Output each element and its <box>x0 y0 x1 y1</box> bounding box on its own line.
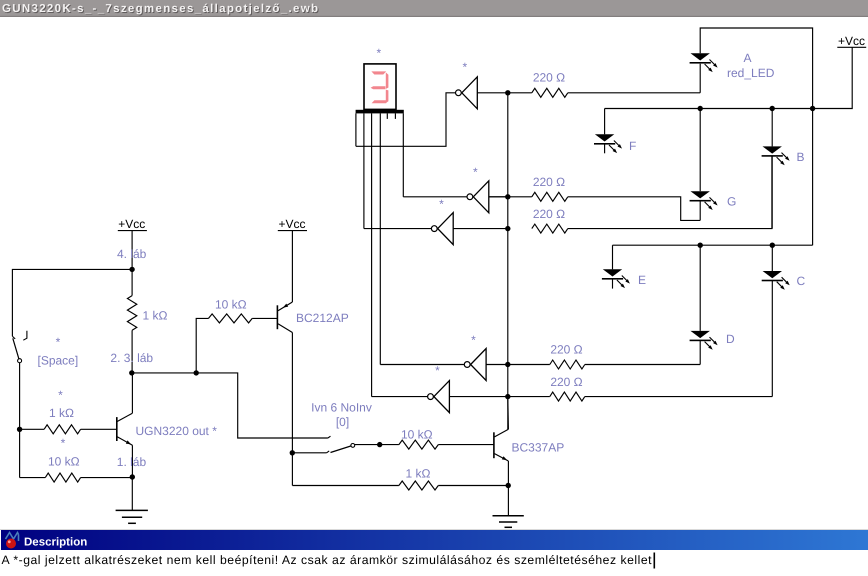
resistor R7 10k <box>20 473 133 482</box>
7-seg display pin header bar <box>356 110 404 114</box>
node base feed <box>194 370 199 375</box>
node bus-row4 <box>505 362 510 367</box>
node 4. lab <box>129 267 134 272</box>
svg-text:E: E <box>638 273 646 287</box>
label resistor R9 <box>215 298 247 312</box>
wire node to switch J1 <box>12 269 132 336</box>
wire pin4 to inverter U5 <box>380 364 464 366</box>
label [Space] <box>38 354 79 368</box>
svg-text:*: * <box>56 335 61 349</box>
wire inverter U2 output <box>477 92 508 94</box>
node R6-R7 left <box>17 427 22 432</box>
node 1. lab <box>130 474 135 479</box>
node +Vcc feed <box>810 106 815 111</box>
label LED D <box>726 332 735 346</box>
label resistor R5 <box>550 375 582 389</box>
star above inverter U3 <box>473 165 478 179</box>
wire pin3 to inverter U6 <box>372 396 428 398</box>
inverter U6 <box>428 381 450 413</box>
star above inverter U6 <box>435 364 440 378</box>
label 2. 3. lab <box>110 351 153 365</box>
LED E <box>602 245 630 288</box>
svg-text:1 kΩ: 1 kΩ <box>143 309 168 323</box>
svg-text:+Vcc: +Vcc <box>838 34 865 48</box>
node bus-row2 <box>505 194 510 199</box>
svg-text:*: * <box>435 364 440 378</box>
7-seg segment c (lower right) <box>386 90 389 104</box>
svg-text:10 kΩ: 10 kΩ <box>401 428 433 442</box>
text cursor <box>654 553 656 569</box>
LED D <box>690 245 718 364</box>
wire node up to R9 <box>196 318 208 373</box>
label resistor R1 <box>533 71 565 85</box>
label resistor R10 <box>401 428 433 442</box>
node LED B anode <box>770 106 775 111</box>
node switch J2 pole <box>290 450 295 455</box>
power +Vcc right <box>813 34 867 109</box>
label LED B <box>797 150 805 164</box>
label resistor R3 <box>533 207 565 221</box>
7-seg pin 1 <box>355 113 357 146</box>
svg-text:B: B <box>797 150 805 164</box>
svg-text:UGN3220 out *: UGN3220 out * <box>136 424 218 438</box>
wire R3 to LED B <box>568 156 772 229</box>
node bus-row1 <box>505 90 510 95</box>
label LED C <box>797 274 806 288</box>
description body background <box>0 550 868 576</box>
svg-text:1 kΩ: 1 kΩ <box>49 406 74 420</box>
star above R7 <box>61 436 66 450</box>
label resistor R2 <box>533 175 565 189</box>
wire anode bus lower <box>613 244 813 246</box>
power +Vcc middle <box>278 217 307 302</box>
LED A red_LED <box>690 53 718 93</box>
svg-text:220 Ω: 220 Ω <box>550 375 582 389</box>
svg-text:D: D <box>726 332 735 346</box>
label resistor R6 <box>49 406 74 420</box>
7-seg pin 2 <box>363 113 365 228</box>
svg-text:*: * <box>58 388 63 402</box>
wire inverter U4 output <box>453 228 508 230</box>
label UGN3220 out <box>136 424 218 438</box>
switch J1 [Space] <box>12 331 27 363</box>
svg-text:GUN3220K-s_-_7szegmenses_állap: GUN3220K-s_-_7szegmenses_állapotjelző_.e… <box>2 3 318 15</box>
svg-text:+Vcc: +Vcc <box>278 217 305 231</box>
svg-text:1 kΩ: 1 kΩ <box>406 467 431 481</box>
node bus-row5 <box>505 394 510 399</box>
7-seg pin 5 <box>402 113 404 196</box>
resistor R8 1k vertical <box>127 269 136 373</box>
label LED F <box>629 139 636 153</box>
label BC212AP <box>296 311 349 325</box>
svg-text:10 kΩ: 10 kΩ <box>48 455 80 469</box>
description title bar <box>1 530 868 550</box>
LED C <box>762 245 790 396</box>
transistor Q3 BC337AP <box>494 397 509 516</box>
LED B <box>762 109 790 229</box>
inverter U2 <box>456 77 478 109</box>
wire inverter U6 output <box>449 396 507 398</box>
label resistor R7 <box>48 455 80 469</box>
wire switch to resistors <box>19 363 21 478</box>
description body text <box>2 553 653 567</box>
resistor R5 220 ohm <box>508 392 585 401</box>
svg-text:10 kΩ: 10 kΩ <box>215 298 247 312</box>
star above inverter U5 <box>471 333 476 347</box>
svg-text:BC212AP: BC212AP <box>296 311 349 325</box>
label resistor R8 <box>143 309 168 323</box>
description title text <box>24 537 87 549</box>
wire pin1 to inverter U2 <box>356 93 456 147</box>
inverter U4 <box>431 213 453 245</box>
label resistor R4 <box>550 343 582 357</box>
resistor R4 220 ohm <box>508 360 585 369</box>
LED G <box>690 109 718 221</box>
label LED G <box>727 195 736 209</box>
svg-text:*: * <box>61 436 66 450</box>
resistor R10 10k <box>380 440 494 449</box>
inverter U5 <box>464 349 486 381</box>
node 2.3 lab <box>129 370 134 375</box>
label BC337AP <box>512 441 565 455</box>
window title bar <box>0 0 868 17</box>
resistor R11 1k <box>292 481 508 490</box>
resistor R3 220 ohm <box>532 224 568 233</box>
star above inverter U2 <box>462 60 467 74</box>
wire pin5 to inverter U3 <box>403 196 467 198</box>
label LED E <box>638 273 646 287</box>
7-seg pin 4 <box>379 113 381 364</box>
wire bus link right <box>812 109 814 246</box>
star above inverter U4 <box>439 197 444 211</box>
svg-text:G: G <box>727 195 736 209</box>
LED F <box>594 109 622 154</box>
label red_LED <box>727 66 775 80</box>
svg-text:*: * <box>462 60 467 74</box>
star above [Space] <box>56 335 61 349</box>
svg-text:220 Ω: 220 Ω <box>533 207 565 221</box>
svg-text:+Vcc: +Vcc <box>118 217 145 231</box>
7-segment display U1 body <box>364 64 396 110</box>
ground GND2 <box>493 516 524 528</box>
power +Vcc left <box>118 217 147 269</box>
label [0] <box>336 415 349 429</box>
node LED C anode <box>770 243 775 248</box>
wire node to switch J2 upper <box>196 373 328 438</box>
svg-text:Description: Description <box>24 537 87 549</box>
svg-text:*: * <box>376 46 381 60</box>
svg-text:220 Ω: 220 Ω <box>533 175 565 189</box>
resistor R2 220 ohm <box>489 192 568 201</box>
svg-text:220 Ω: 220 Ω <box>533 71 565 85</box>
svg-text:2. 3. láb: 2. 3. láb <box>110 351 153 365</box>
7-seg pin 3 <box>371 113 373 396</box>
7-seg pin stub 7 <box>394 113 396 119</box>
svg-text:red_LED: red_LED <box>727 66 775 80</box>
svg-text:F: F <box>629 139 636 153</box>
svg-text:*: * <box>473 165 478 179</box>
wire R2 to LED G <box>568 197 700 221</box>
resistor R6 1k <box>20 425 117 434</box>
wire Q2 collector down <box>291 333 293 486</box>
resistor R1 220 ohm <box>508 88 568 97</box>
wire R4 to LED D <box>585 364 700 366</box>
node switch J2 to R10 <box>377 442 382 447</box>
label 4. lab <box>117 247 147 261</box>
7-seg segment d (bottom) <box>372 100 387 103</box>
svg-text:220 Ω: 220 Ω <box>550 343 582 357</box>
description panel border <box>0 529 868 530</box>
label resistor R11 <box>406 467 431 481</box>
label Ivn 6 NoInv <box>311 401 372 415</box>
wire R5 to LED C <box>585 396 773 398</box>
switch J2 upper contact <box>328 436 331 438</box>
svg-text:[0]: [0] <box>336 415 349 429</box>
switch J2 Ivn 6 NoInv <box>331 444 380 453</box>
wire inverter U5 output <box>486 364 508 366</box>
svg-text:*: * <box>471 333 476 347</box>
wire inverter U3 output <box>489 196 508 198</box>
7-seg segment b (upper right) <box>386 72 389 89</box>
svg-text:A: A <box>744 51 752 65</box>
star above R6 <box>58 388 63 402</box>
wire LED A top rail <box>700 28 812 109</box>
wire common collector bus <box>507 93 509 430</box>
ground GND1 <box>116 477 148 523</box>
wire anode bus upper <box>605 108 813 110</box>
svg-text:[Space]: [Space] <box>38 354 79 368</box>
node LED G anode <box>698 106 703 111</box>
svg-text:4. láb: 4. láb <box>117 247 147 261</box>
7-seg pin stub 6 <box>386 113 388 119</box>
star above 7-seg display U1 <box>376 46 381 60</box>
node Q3 emitter <box>506 483 511 488</box>
svg-text:BC337AP: BC337AP <box>512 441 565 455</box>
wire pin2 to inverter U4 <box>364 228 431 230</box>
node LED D anode <box>698 243 703 248</box>
wire switch J2 lower contact <box>292 451 329 453</box>
label 1. lab <box>117 455 147 469</box>
wire R1 to LED A <box>568 92 700 94</box>
resistor R9 10k <box>209 314 278 323</box>
svg-text:1. láb: 1. láb <box>117 455 147 469</box>
label LED A <box>744 51 752 65</box>
inverter U3 <box>467 181 489 213</box>
node bus-row3 <box>505 226 510 231</box>
7-seg segment a (top) <box>371 71 386 74</box>
description icon <box>6 533 19 549</box>
svg-text:C: C <box>797 274 806 288</box>
7-seg segment g (middle) <box>371 86 386 89</box>
svg-text:Ivn 6 NoInv: Ivn 6 NoInv <box>311 401 372 415</box>
svg-text:A *-gal jelzett alkatrészeket: A *-gal jelzett alkatrészeket nem kell b… <box>2 553 653 567</box>
svg-text:*: * <box>439 197 444 211</box>
transistor Q2 BC212AP <box>277 302 292 333</box>
transistor Q1 UGN3220 <box>117 373 133 477</box>
wire node to R9 <box>132 372 196 374</box>
